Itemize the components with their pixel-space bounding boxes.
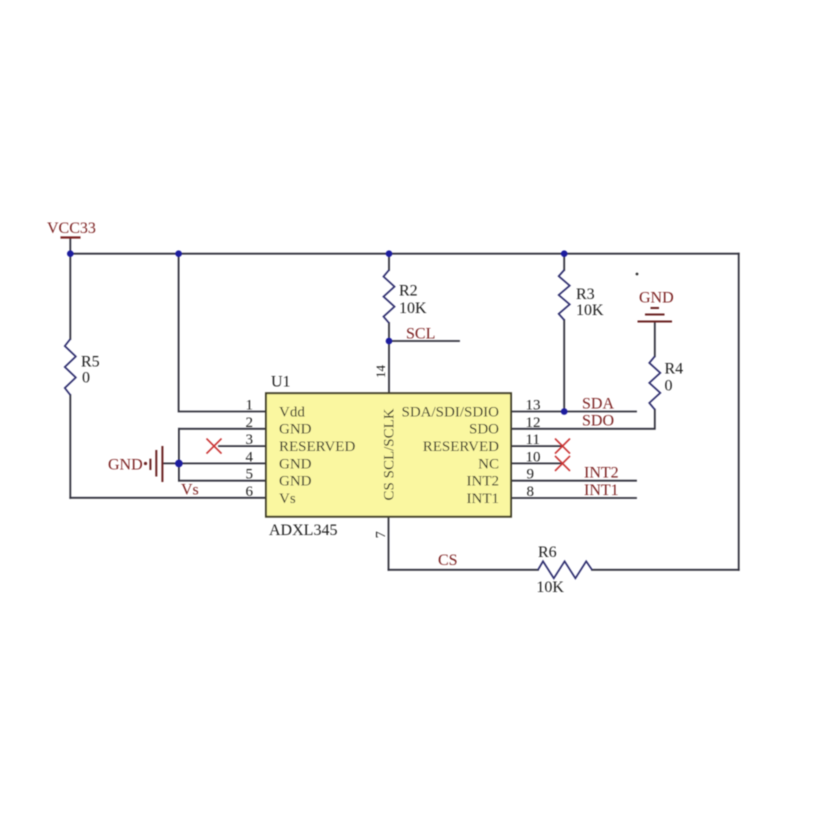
- svg-text:R4: R4: [665, 361, 684, 378]
- ground left dot decoration: [144, 462, 147, 465]
- svg-text:Vs: Vs: [279, 491, 296, 507]
- svg-text:10K: 10K: [576, 302, 604, 319]
- junction dot Vdd branch: [175, 250, 182, 257]
- wire SDO net pin 12: [511, 410, 655, 429]
- svg-text:10K: 10K: [536, 579, 564, 596]
- svg-text:5: 5: [246, 467, 254, 483]
- wire CS bottom left segment: [389, 569, 539, 571]
- no-connect X pin 3: [207, 439, 222, 454]
- svg-text:SCL: SCL: [406, 326, 435, 343]
- svg-text:10K: 10K: [399, 300, 427, 317]
- wire R2 bottom lead to pin 14: [388, 323, 390, 394]
- svg-text:9: 9: [527, 467, 535, 483]
- svg-text:INT2: INT2: [467, 474, 500, 490]
- svg-text:GND: GND: [639, 290, 674, 307]
- wire left rail upper lead: [69, 254, 71, 339]
- svg-text:INT2: INT2: [584, 465, 619, 482]
- wire R3 bottom lead: [563, 320, 565, 412]
- junction dot R2 top: [386, 250, 393, 257]
- stray dot artifact: [636, 273, 639, 276]
- svg-text:1: 1: [246, 398, 254, 414]
- wire top VCC rail: [70, 253, 738, 255]
- wire SDA net pin 13: [511, 411, 636, 413]
- wire VCC33 stem: [69, 238, 71, 254]
- wire INT2 pin 9: [511, 480, 636, 482]
- svg-text:Vs: Vs: [181, 482, 199, 499]
- no-connect X pin 10: [555, 456, 570, 471]
- wire R3 top lead: [563, 254, 565, 270]
- svg-text:0: 0: [665, 378, 673, 395]
- svg-text:SDO: SDO: [582, 412, 614, 429]
- svg-text:13: 13: [526, 398, 541, 414]
- wire SCL stub: [389, 340, 459, 342]
- power symbol VCC33 bar: [61, 236, 81, 238]
- svg-text:R2: R2: [399, 283, 418, 300]
- resistor R2: [384, 270, 395, 323]
- junction dot SCL: [386, 338, 393, 345]
- svg-text:RESERVED: RESERVED: [423, 439, 499, 455]
- wire GND vertical link pins 2-5: [178, 429, 180, 481]
- svg-text:14: 14: [373, 365, 388, 379]
- svg-text:U1: U1: [271, 374, 291, 391]
- svg-text:4: 4: [246, 449, 254, 465]
- svg-text:NC: NC: [478, 456, 499, 472]
- junction dot GND pin4: [175, 460, 183, 468]
- svg-text:GND: GND: [279, 474, 312, 490]
- svg-text:R5: R5: [81, 354, 100, 371]
- resistor R3: [559, 270, 570, 320]
- svg-text:SDA: SDA: [582, 395, 614, 412]
- svg-text:2: 2: [246, 415, 254, 431]
- svg-text:8: 8: [527, 484, 535, 500]
- wire pin 5 GND: [179, 480, 266, 482]
- svg-text:3: 3: [246, 432, 254, 448]
- wire right vertical rail: [738, 254, 740, 570]
- no-connect X pin 11: [555, 439, 570, 454]
- junction dot VCC/left rail: [67, 250, 74, 257]
- svg-text:INT1: INT1: [467, 491, 500, 507]
- svg-text:Vdd: Vdd: [279, 404, 305, 420]
- wire pin 2 GND: [179, 428, 266, 430]
- junction dot SDA: [561, 408, 568, 415]
- wire CS bottom right segment: [592, 569, 739, 571]
- svg-text:INT1: INT1: [584, 482, 619, 499]
- svg-text:GND: GND: [279, 422, 312, 438]
- wire Vs net to pin 6: [70, 497, 266, 499]
- svg-text:10: 10: [526, 449, 541, 465]
- svg-text:GND: GND: [279, 456, 312, 472]
- wire Vdd vertical branch: [179, 254, 266, 412]
- svg-text:ADXL345: ADXL345: [269, 522, 337, 539]
- svg-text:11: 11: [526, 432, 540, 448]
- junction dot R3 top: [561, 250, 568, 257]
- svg-text:12: 12: [526, 415, 541, 431]
- svg-text:GND: GND: [108, 457, 143, 474]
- svg-text:7: 7: [374, 531, 389, 538]
- ground symbol right: [638, 308, 673, 322]
- wire R2 top lead: [388, 254, 390, 270]
- svg-text:0: 0: [82, 370, 90, 387]
- svg-text:RESERVED: RESERVED: [279, 439, 355, 455]
- svg-text:VCC33: VCC33: [47, 220, 96, 237]
- svg-text:CS: CS: [438, 552, 458, 569]
- wire pin 3 stub: [219, 445, 266, 447]
- wire pin 4 GND to ground symbol: [163, 462, 266, 464]
- resistor R5: [65, 339, 76, 395]
- svg-text:R3: R3: [576, 286, 595, 303]
- resistor R4: [649, 356, 660, 409]
- wire pin 10 stub: [511, 462, 561, 464]
- wire INT1 pin 8: [511, 497, 636, 499]
- wire left rail lower lead: [69, 395, 71, 498]
- ground symbol left: [150, 446, 162, 482]
- svg-text:SDA/SDI/SDIO: SDA/SDI/SDIO: [401, 404, 499, 420]
- svg-text:CS SCL/SCLK: CS SCL/SCLK: [382, 408, 398, 500]
- wire R4 top lead: [654, 322, 656, 357]
- svg-text:SDO: SDO: [469, 422, 499, 438]
- op-amp U1 chip body ADXL345: [266, 393, 511, 517]
- wire pin7 vertical: [388, 517, 390, 570]
- svg-text:6: 6: [246, 484, 254, 500]
- svg-text:R6: R6: [538, 544, 557, 561]
- wire pin 11 stub: [511, 445, 561, 447]
- resistor R6: [538, 561, 592, 578]
